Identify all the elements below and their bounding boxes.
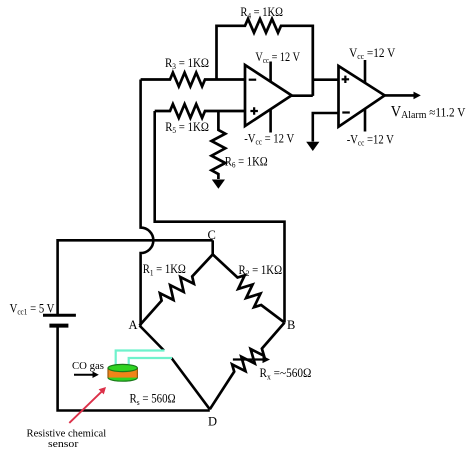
bridge branch B-D with variable resistor Rx — [210, 323, 285, 410]
ground arrow at U2 inverting input — [306, 142, 319, 151]
op-amp U2 (comparator) — [339, 66, 385, 127]
label CO gas with arrow — [72, 360, 104, 378]
wire: battery negative down and across to node D — [58, 326, 210, 411]
svg-text:R6 = 1KΩ: R6 = 1KΩ — [225, 154, 268, 169]
svg-text:Rs = 560Ω: Rs = 560Ω — [130, 392, 176, 407]
battery Vcc1 (5 V) — [43, 315, 76, 325]
wire: node B riser to R5 — [155, 111, 285, 323]
svg-text:B: B — [287, 318, 295, 332]
red annotation arrow to sensor — [69, 387, 106, 423]
wire: junction to U2 non-inverting input — [313, 80, 338, 96]
bridge branch A-C with resistor R1 — [140, 254, 213, 325]
U2 Vcc supply pin — [364, 60, 367, 83]
svg-text:R4 = 1KΩ: R4 = 1KΩ — [240, 5, 283, 20]
svg-text:Vcc1 = 5 V: Vcc1 = 5 V — [10, 302, 55, 317]
svg-text:Vcc =12 V: Vcc =12 V — [349, 46, 395, 61]
resistor R5 (1K ohm) into non-inverting input — [155, 104, 245, 118]
svg-text:-Vcc =12 V: -Vcc =12 V — [347, 132, 394, 147]
bridge branch A-D (sensor Rs), broken for sensor leads — [140, 326, 210, 410]
svg-text:A: A — [129, 318, 138, 332]
svg-text:D: D — [208, 415, 217, 429]
wire: node C stub down to bridge apex — [211, 240, 214, 254]
svg-text:R2 = 1KΩ: R2 = 1KΩ — [239, 263, 283, 278]
sensor lead wire upper (cyan) — [116, 351, 165, 368]
Rx variable-resistor arrow — [233, 356, 270, 363]
svg-text:Rx =~560Ω: Rx =~560Ω — [260, 366, 312, 381]
U2 -Vcc supply pin — [364, 109, 367, 131]
wire: node A up to R3, with hop over horizontal wire — [141, 80, 154, 326]
wire: battery positive up and across to node C — [58, 240, 213, 315]
wire: U2 output with arrow — [385, 92, 421, 100]
sensor lead wire lower (cyan) — [129, 358, 172, 367]
svg-text:R3 = 1KΩ: R3 = 1KΩ — [165, 56, 209, 71]
resistor R3 (1K ohm) into inverting input — [141, 73, 245, 87]
U1 -Vcc supply pin — [269, 109, 272, 132]
op-amp U1 (difference amplifier) — [245, 65, 292, 126]
resistor R4 (1K ohm) feedback — [217, 19, 313, 96]
svg-text:R1 = 1KΩ: R1 = 1KΩ — [143, 262, 186, 277]
resistor R6 (1K ohm) to ground — [212, 111, 226, 179]
bridge branch C-B with resistor R2 — [213, 254, 285, 322]
CO gas sensor cylinder — [108, 364, 137, 381]
svg-text:VAlarm ≈11.2 V: VAlarm ≈11.2 V — [391, 104, 466, 122]
svg-text:R5 = 1KΩ: R5 = 1KΩ — [165, 120, 209, 135]
wire: U2 inverting input to ground — [313, 113, 338, 142]
U1 Vcc supply pin — [269, 62, 272, 82]
wire: U1 output to junction — [292, 94, 313, 97]
svg-text:-Vcc = 12 V: -Vcc = 12 V — [244, 131, 294, 146]
svg-text:CO gas: CO gas — [72, 360, 104, 372]
svg-text:sensor: sensor — [48, 438, 79, 450]
svg-text:Vcc = 12 V: Vcc = 12 V — [255, 50, 300, 65]
svg-text:C: C — [208, 228, 216, 242]
ground arrow below R6 — [212, 180, 225, 189]
